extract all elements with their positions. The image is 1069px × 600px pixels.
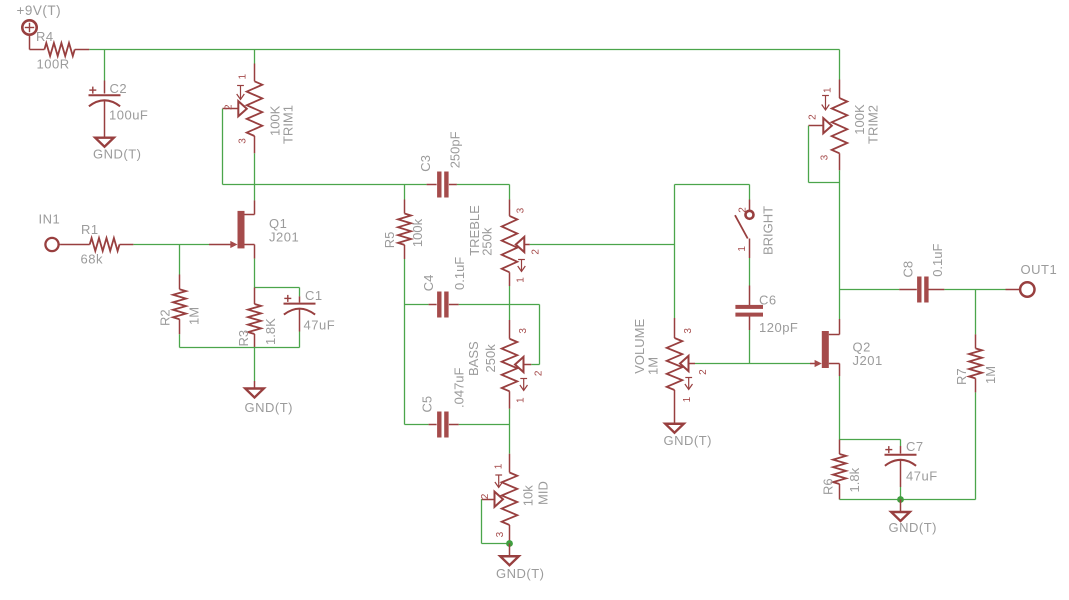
- svg-text:250pF: 250pF: [447, 131, 462, 168]
- svg-text:J201: J201: [853, 353, 883, 368]
- svg-text:3: 3: [238, 138, 249, 144]
- svg-text:2: 2: [808, 114, 819, 120]
- capacitor C1: [284, 288, 336, 333]
- wire source node row: [840, 439, 901, 441]
- wire R5 to C4 row: [404, 259, 406, 305]
- potentiometer VOLUME: [632, 318, 709, 424]
- svg-text:1: 1: [823, 87, 834, 93]
- wire TRIM1 wiper loop: [223, 109, 255, 185]
- wire C1 top: [299, 288, 301, 297]
- wire C7 top: [900, 440, 902, 447]
- capacitor C2: [89, 81, 149, 138]
- wire TREBLE wiper to VOLUME: [530, 244, 675, 246]
- resistor R3: [236, 288, 278, 348]
- svg-text:120pF: 120pF: [759, 320, 798, 335]
- svg-text:2: 2: [480, 493, 491, 499]
- wire TREBLE bottom: [509, 286, 511, 305]
- wire ground rail: [180, 347, 300, 349]
- resistor R2: [158, 275, 202, 335]
- wire Q1 source node: [255, 259, 300, 288]
- svg-text:1.8K: 1.8K: [263, 318, 278, 345]
- svg-text:GND(T): GND(T): [93, 147, 142, 162]
- svg-text:C1: C1: [305, 288, 323, 303]
- svg-text:GND(T): GND(T): [245, 400, 294, 415]
- svg-text:0.1uF: 0.1uF: [452, 257, 467, 290]
- wire C8 row: [840, 289, 900, 291]
- switch BRIGHT: [735, 185, 776, 259]
- svg-text:R1: R1: [81, 222, 99, 237]
- transistor Q2: [810, 319, 883, 376]
- wire bus to C3: [255, 184, 427, 186]
- svg-text:1: 1: [515, 277, 526, 283]
- potentiometer TREBLE: [467, 199, 542, 286]
- svg-text:100R: 100R: [37, 57, 70, 72]
- svg-text:3: 3: [683, 328, 694, 334]
- wire node to Q2 drain: [839, 290, 841, 320]
- wire C6 bottom: [749, 330, 751, 364]
- svg-text:1M: 1M: [187, 307, 202, 325]
- wire VOLUME node: [675, 185, 750, 319]
- svg-text:2: 2: [738, 207, 749, 213]
- wire C3 to TREBLE: [457, 185, 510, 200]
- svg-text:R3: R3: [236, 330, 251, 347]
- svg-text:3: 3: [820, 154, 831, 160]
- wire C7 bottom: [900, 487, 902, 500]
- svg-text:.047uF: .047uF: [452, 367, 467, 408]
- svg-text:GND(T): GND(T): [496, 566, 545, 581]
- capacitor C4: [421, 257, 467, 318]
- svg-text:1.8k: 1.8k: [847, 467, 862, 492]
- trimmer TRIM2: [808, 80, 881, 171]
- wire VOLUME wiper to Q2 gate: [695, 363, 810, 365]
- svg-text:3: 3: [516, 207, 527, 213]
- svg-text:1M: 1M: [646, 357, 661, 375]
- input pad IN1: [39, 212, 61, 252]
- svg-text:100uF: 100uF: [109, 108, 148, 123]
- wire node to Q1 drain: [254, 185, 256, 201]
- svg-text:OUT1: OUT1: [1021, 262, 1058, 277]
- capacitor C6: [735, 286, 798, 336]
- svg-text:1: 1: [238, 74, 249, 80]
- svg-text:C2: C2: [110, 81, 128, 96]
- svg-text:C4: C4: [421, 275, 436, 292]
- svg-text:+9V(T): +9V(T): [17, 3, 62, 18]
- svg-text:C8: C8: [901, 261, 916, 278]
- trimmer TRIM1: [223, 64, 296, 154]
- svg-text:47uF: 47uF: [906, 469, 938, 484]
- svg-text:IN1: IN1: [39, 212, 61, 227]
- capacitor C3: [418, 131, 462, 197]
- resistor R5: [382, 200, 425, 260]
- svg-text:R2: R2: [158, 309, 173, 326]
- wire BASS wiper: [531, 364, 539, 366]
- capacitor C7: [885, 439, 938, 487]
- svg-text:BASS: BASS: [466, 341, 481, 376]
- power supply +9V(T): [17, 3, 62, 50]
- svg-text:1: 1: [494, 463, 505, 469]
- wire BASS bottom: [509, 409, 511, 425]
- svg-text:TRIM1: TRIM1: [281, 105, 296, 144]
- ground GND(T) at C2: [93, 138, 142, 162]
- svg-text:47uF: 47uF: [304, 318, 336, 333]
- svg-text:0.1uF: 0.1uF: [930, 243, 945, 276]
- capacitor C5: [420, 367, 467, 437]
- resistor R6: [821, 440, 863, 500]
- svg-text:250k: 250k: [483, 344, 498, 373]
- ground GND(T) at MID: [496, 544, 545, 582]
- wire C8 row to R7: [975, 290, 977, 335]
- wire TRIM1 bottom: [254, 153, 256, 184]
- svg-text:C6: C6: [759, 293, 777, 308]
- wire bus to R5: [404, 185, 406, 200]
- svg-text:250k: 250k: [479, 227, 494, 256]
- svg-text:3: 3: [495, 531, 506, 537]
- transistor Q1: [209, 200, 299, 258]
- wire C1 bottom: [299, 332, 301, 348]
- wire 9V rail: [89, 49, 839, 51]
- wire R7 bottom: [975, 392, 977, 499]
- svg-text:TRIM2: TRIM2: [865, 105, 880, 144]
- svg-text:1: 1: [682, 396, 693, 402]
- svg-text:1: 1: [737, 246, 748, 252]
- svg-text:C7: C7: [906, 439, 924, 454]
- wire C8 to OUT1: [944, 289, 1005, 291]
- wire Q2 source down: [839, 376, 841, 440]
- svg-text:10k: 10k: [521, 485, 536, 506]
- svg-text:VOLUME: VOLUME: [632, 319, 647, 374]
- svg-text:BRIGHT: BRIGHT: [761, 206, 776, 255]
- capacitor C8: [899, 243, 945, 302]
- potentiometer BASS: [466, 305, 545, 409]
- svg-text:68k: 68k: [81, 252, 103, 267]
- svg-text:R6: R6: [821, 478, 836, 495]
- svg-text:C3: C3: [418, 155, 433, 172]
- potentiometer MID: [480, 454, 551, 543]
- wire rail to GND: [254, 348, 256, 389]
- svg-text:GND(T): GND(T): [664, 433, 713, 448]
- svg-text:1M: 1M: [983, 366, 998, 384]
- wire R1 to gate: [133, 244, 209, 246]
- output pad OUT1: [1006, 262, 1058, 297]
- wire rail to C2: [104, 50, 106, 81]
- svg-text:2: 2: [698, 369, 709, 375]
- wire gate node to R2: [179, 245, 181, 275]
- wire TRIM2 bottom: [839, 170, 841, 289]
- svg-text:100k: 100k: [410, 218, 425, 247]
- wire TRIM2 wiper loop: [809, 126, 840, 183]
- svg-text:R5: R5: [382, 232, 397, 249]
- svg-text:MID: MID: [536, 481, 551, 505]
- junction C7 ground: [897, 496, 904, 503]
- svg-text:1: 1: [516, 397, 527, 403]
- svg-text:R4: R4: [36, 29, 54, 44]
- wire C5 row: [405, 424, 510, 426]
- resistor R7: [954, 334, 998, 392]
- svg-text:J201: J201: [269, 230, 299, 245]
- resistor R4: [30, 29, 90, 72]
- svg-text:R7: R7: [954, 368, 969, 385]
- resistor R1: [60, 222, 133, 267]
- wire R2 bottom: [179, 334, 181, 347]
- ground GND(T) at VOLUME: [664, 424, 713, 448]
- wire rail to TRIM2: [839, 50, 841, 80]
- wire rail to TRIM1: [254, 50, 256, 64]
- svg-text:2: 2: [534, 370, 545, 376]
- wire C4 row: [405, 305, 540, 365]
- ground GND(T) at C7: [889, 500, 938, 536]
- svg-text:GND(T): GND(T): [889, 520, 938, 535]
- wire C4 row to C5 row: [404, 305, 406, 425]
- svg-text:2: 2: [530, 249, 541, 255]
- wire MID wiper loop: [482, 499, 510, 543]
- svg-text:C5: C5: [420, 396, 435, 413]
- wire C5 row to MID: [509, 425, 511, 454]
- svg-text:3: 3: [518, 328, 529, 334]
- ground GND(T) at R3: [245, 389, 294, 416]
- junction MID ground: [506, 540, 513, 547]
- svg-text:2: 2: [224, 104, 235, 110]
- wire bottom rail right: [840, 499, 976, 501]
- wire BRIGHT to C6: [749, 258, 751, 286]
